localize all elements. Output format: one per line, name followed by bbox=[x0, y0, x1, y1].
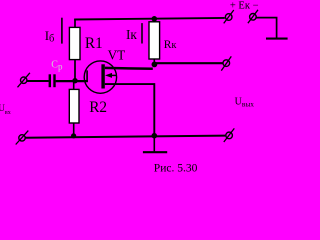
ground bar bottom bbox=[143, 151, 167, 153]
wire capacitor to base node and gate bbox=[56, 80, 88, 82]
svg-text:VT: VT bbox=[108, 47, 126, 62]
wire bottom rail bbox=[26, 136, 226, 138]
label Ib bbox=[45, 28, 55, 45]
wire source node to ground bbox=[153, 136, 155, 152]
wire drain to collector node bbox=[105, 67, 153, 70]
current arrow Ik line bbox=[141, 23, 143, 43]
label VT bbox=[108, 47, 126, 62]
label Uvyx output voltage bbox=[235, 96, 255, 108]
svg-text:Рис. 5.30: Рис. 5.30 bbox=[154, 163, 198, 174]
resistor R1 bbox=[69, 19, 80, 81]
label R1 bbox=[85, 35, 103, 52]
transistor VT gate bar bbox=[86, 70, 88, 82]
svg-text:Iк: Iк bbox=[126, 27, 137, 42]
junction dot bottom rail / R2 bbox=[71, 133, 76, 138]
svg-text:R2: R2 bbox=[89, 99, 107, 116]
terminal input (circle with slash) bbox=[18, 73, 30, 88]
terminal -Ek (circle with slash) bbox=[248, 10, 258, 23]
current arrow Ib line bbox=[61, 18, 63, 44]
ground bar top right bbox=[266, 38, 288, 40]
label Ik bbox=[126, 27, 137, 42]
wire from -Ek terminal to ground bbox=[256, 18, 276, 38]
wire collector node to output terminal bbox=[154, 62, 222, 64]
label R2 bbox=[89, 99, 107, 116]
junction dot collector node bbox=[152, 62, 158, 68]
junction dot bottom rail / source bbox=[152, 133, 158, 139]
transistor VT circle bbox=[84, 61, 116, 93]
svg-text:Cр: Cр bbox=[51, 59, 63, 71]
transistor VT substrate arrow bbox=[105, 73, 116, 78]
label Uvx input voltage bbox=[0, 103, 11, 116]
terminal input lower (circle with slash) bbox=[16, 131, 29, 145]
wire top supply rail bbox=[74, 18, 225, 20]
label Cp bbox=[51, 59, 63, 71]
terminal output collector (circle with slash) bbox=[221, 56, 231, 70]
svg-text:R1: R1 bbox=[85, 35, 103, 52]
wire source down to bottom rail bbox=[105, 84, 155, 136]
svg-text:Rк: Rк bbox=[164, 39, 177, 51]
capacitor Cp bbox=[49, 74, 56, 87]
transistor VT channel bar bbox=[101, 64, 104, 88]
caption Ris 5.30 bbox=[154, 163, 198, 175]
terminal +Ek (circle with slash) bbox=[224, 10, 234, 23]
svg-text:+ Eк −: + Eк − bbox=[230, 0, 259, 11]
junction dot base node bbox=[72, 78, 77, 83]
terminal output lower (circle with slash) bbox=[224, 128, 235, 142]
label Rk bbox=[164, 39, 177, 51]
resistor R2 bbox=[69, 82, 79, 136]
junction dot top rail / Rk bbox=[152, 16, 158, 22]
label +Ek- supply bbox=[230, 0, 259, 11]
wire input terminal to capacitor bbox=[27, 80, 49, 82]
resistor Rk bbox=[149, 19, 160, 65]
